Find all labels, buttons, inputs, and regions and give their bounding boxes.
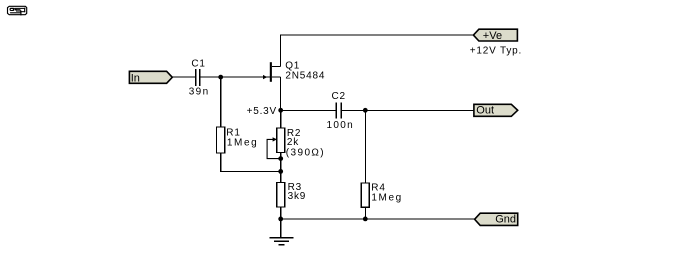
svg-text:C2: C2 bbox=[332, 91, 346, 102]
wire In to C1 bbox=[172, 77, 195, 78]
svg-text:C1: C1 bbox=[191, 58, 205, 69]
svg-text:+5.3V: +5.3V bbox=[247, 106, 277, 117]
svg-text:3k9: 3k9 bbox=[288, 191, 307, 202]
wire R4 bottom to gnd rail bbox=[365, 207, 366, 219]
svg-text:+Ve: +Ve bbox=[483, 30, 502, 42]
wire R2 bottom to R3 top bbox=[280, 152, 281, 182]
svg-text:1Meg: 1Meg bbox=[227, 138, 258, 149]
svg-text:Out: Out bbox=[476, 104, 494, 116]
svg-text:Gnd: Gnd bbox=[495, 214, 516, 226]
node R4 gnd junction dot bbox=[363, 217, 368, 222]
capacitor C2 bbox=[335, 103, 342, 119]
flag In bbox=[129, 71, 172, 84]
node R3 gnd junction dot bbox=[278, 217, 283, 222]
wire Q1 source down bbox=[280, 77, 281, 111]
flag +Ve bbox=[473, 29, 517, 42]
wire C1 to Q1 gate bbox=[200, 77, 270, 78]
wire R1 to R2/R3 node bbox=[220, 171, 281, 172]
wire Out node down to R4 bbox=[365, 110, 366, 183]
wire C2 to Out bbox=[342, 110, 475, 111]
svg-text:39n: 39n bbox=[189, 87, 210, 98]
resistor R3 bbox=[277, 183, 285, 207]
wire node A down to R1 bbox=[220, 77, 221, 128]
wire gnd stub bbox=[280, 219, 281, 238]
resistor R1 bbox=[217, 127, 225, 153]
resistor R2 (preset) bbox=[267, 128, 285, 158]
wire R3 bottom to gnd rail bbox=[280, 207, 281, 219]
transistor Q1 bbox=[263, 62, 280, 82]
esp logo bbox=[8, 6, 27, 15]
node +5.3V junction dot bbox=[278, 108, 283, 113]
node R1/R2 junction dot bbox=[278, 169, 283, 174]
node wiper junction dot bbox=[278, 156, 283, 161]
capacitor C1 bbox=[195, 69, 201, 86]
wire top rail to +Ve bbox=[280, 34, 474, 35]
wire node to R2 top bbox=[280, 110, 281, 128]
wire gnd rail to Gnd flag bbox=[280, 219, 475, 220]
ground bbox=[270, 237, 294, 246]
svg-text:(390Ω): (390Ω) bbox=[286, 148, 325, 159]
svg-text:In: In bbox=[131, 72, 140, 84]
resistor R4 bbox=[361, 183, 369, 207]
wire R1 bottom elbow bbox=[220, 153, 221, 172]
svg-text:1Meg: 1Meg bbox=[371, 192, 402, 203]
node A junction dot bbox=[218, 75, 223, 80]
flag Gnd bbox=[475, 213, 518, 226]
node Out junction dot bbox=[363, 108, 368, 113]
svg-text:100n: 100n bbox=[327, 120, 354, 131]
svg-text:+12V Typ.: +12V Typ. bbox=[470, 45, 522, 56]
wire source node to C2 bbox=[280, 110, 336, 111]
wire Q1 drain up bbox=[280, 35, 281, 67]
flag Out bbox=[474, 104, 518, 116]
svg-text:2N5484: 2N5484 bbox=[285, 70, 325, 81]
